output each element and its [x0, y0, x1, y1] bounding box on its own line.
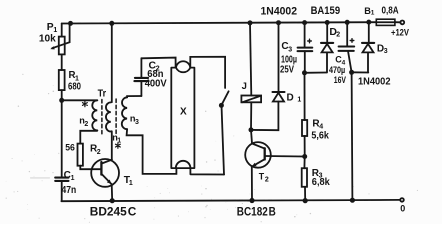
- svg-text:680: 680: [68, 82, 81, 93]
- label n1: [112, 132, 121, 144]
- label R3: [312, 168, 323, 180]
- svg-text:Tr: Tr: [98, 88, 107, 99]
- node C4 bottom rail: [350, 198, 355, 203]
- node top rail P1 wiper: [68, 21, 73, 26]
- node J/D1/T2: [249, 127, 254, 132]
- svg-text:2: 2: [265, 177, 269, 184]
- svg-text:1: 1: [129, 180, 133, 187]
- svg-text:3: 3: [384, 48, 388, 55]
- capacitor C3: [298, 23, 313, 73]
- svg-text:4: 4: [319, 124, 323, 131]
- resistor R3: [302, 168, 307, 187]
- svg-text:1N4002: 1N4002: [261, 5, 298, 17]
- svg-text:0,8A: 0,8A: [382, 6, 400, 17]
- svg-text:2: 2: [97, 149, 101, 156]
- node top rail C4: [345, 20, 350, 25]
- wire C3 node to R4: [304, 73, 306, 120]
- svg-text:47n: 47n: [62, 185, 77, 196]
- svg-text:2: 2: [336, 32, 340, 39]
- svg-text:1: 1: [297, 97, 301, 104]
- transistor T2: [245, 130, 271, 201]
- label D1: [287, 93, 302, 104]
- wire to n2: [62, 99, 98, 101]
- svg-text:25V: 25V: [280, 64, 294, 75]
- diode D1: [251, 23, 285, 131]
- wire T2 base: [265, 155, 305, 158]
- wire n3 bottom to tube: [127, 129, 224, 174]
- label n3: [130, 113, 139, 126]
- wire C2 top to tube: [141, 58, 175, 68]
- resistor R2: [78, 144, 83, 166]
- diode D3: [362, 22, 374, 72]
- scan artifact faint line: [31, 177, 50, 179]
- svg-text:16V: 16V: [334, 75, 347, 86]
- svg-text:56: 56: [65, 142, 75, 152]
- node top rail D1: [276, 20, 281, 25]
- label D3: [377, 43, 388, 55]
- node top rail C3: [302, 20, 307, 25]
- label D2: [329, 26, 340, 38]
- label n2: [79, 116, 88, 129]
- svg-text:3: 3: [288, 46, 292, 53]
- capacitor C1: [55, 178, 68, 181]
- svg-text:6,8k: 6,8k: [312, 177, 330, 188]
- wire base node to R3: [303, 157, 305, 169]
- label R2: [90, 144, 101, 156]
- polarity mark n1: [116, 143, 121, 148]
- node top rail J: [248, 20, 253, 25]
- label T1: [124, 175, 133, 187]
- terminal +12V: [400, 21, 404, 25]
- node top rail D2: [325, 20, 330, 25]
- node top rail D3: [366, 20, 371, 25]
- switch S: [219, 91, 229, 174]
- resistor R1: [59, 70, 65, 90]
- polarity mark n2: [83, 101, 88, 106]
- wire left chain vertical: [61, 24, 63, 202]
- label R4: [312, 119, 323, 131]
- svg-text:0: 0: [400, 204, 405, 214]
- node T2 emitter bottom: [249, 198, 254, 203]
- transformer winding n1: [106, 102, 111, 131]
- wire n2 bottom to R2: [80, 130, 97, 143]
- label T2: [259, 171, 269, 183]
- label C3: [281, 41, 292, 53]
- label P1: [47, 22, 58, 34]
- svg-text:1: 1: [371, 9, 375, 16]
- label C2: [149, 59, 160, 72]
- svg-text:2: 2: [84, 121, 88, 128]
- svg-text:1: 1: [71, 175, 75, 182]
- potentiometer P1: [50, 23, 69, 54]
- svg-text:400V: 400V: [145, 77, 167, 89]
- node junction R1/n2: [59, 98, 64, 103]
- capacitor C2: [134, 58, 148, 96]
- node R3 bottom rail: [303, 198, 308, 203]
- node R4/R3/base: [302, 154, 307, 159]
- node C4/D3: [349, 70, 354, 75]
- svg-text:470µ: 470µ: [329, 65, 345, 75]
- wire C4 node to D3: [352, 71, 369, 73]
- svg-text:BC182 B: BC182 B: [237, 206, 276, 218]
- transformer winding n3: [122, 97, 127, 129]
- label B1: [364, 6, 375, 16]
- label R1: [69, 70, 80, 82]
- capacitor C4: [339, 22, 355, 72]
- node top rail n1: [109, 21, 114, 26]
- svg-text:1N4002: 1N4002: [358, 76, 391, 88]
- scan speckle noise: [6, 74, 418, 223]
- svg-text:T: T: [259, 171, 265, 181]
- svg-text:+12V: +12V: [391, 27, 410, 38]
- wire R4 to base node: [304, 136, 306, 157]
- transistor T1: [91, 159, 119, 187]
- transformer Tr winding n2: [92, 100, 97, 130]
- wire T1 emitter to bottom rail: [111, 184, 114, 201]
- resistor R4: [302, 120, 307, 136]
- label C1: [64, 170, 75, 182]
- wire tube top right to switch: [190, 57, 225, 88]
- wire n3 top to C2: [127, 96, 141, 97]
- svg-text:3: 3: [135, 119, 139, 126]
- svg-text:X: X: [180, 107, 187, 118]
- wire C3 node to D2: [305, 72, 327, 74]
- wire R3 to bottom rail: [304, 187, 306, 201]
- wire collector line / n1 feed: [111, 23, 113, 159]
- relay coil J: [241, 23, 261, 130]
- fuse B1: [376, 19, 395, 25]
- wire R2 to T1 base: [80, 166, 101, 170]
- label C4: [335, 54, 345, 66]
- svg-text:J: J: [242, 81, 247, 92]
- svg-text:BA159: BA159: [311, 5, 341, 17]
- node C3/D2: [302, 70, 307, 75]
- fluorescent tube X: [171, 61, 194, 168]
- svg-text:5,6k: 5,6k: [311, 131, 329, 142]
- svg-text:10k: 10k: [39, 34, 56, 45]
- node T1 emitter bottom: [110, 198, 115, 203]
- wire top rail: [62, 22, 401, 23]
- diode D2: [321, 23, 333, 73]
- terminal 0: [400, 198, 404, 202]
- svg-text:BD245 C: BD245 C: [90, 207, 137, 219]
- svg-text:D: D: [287, 93, 294, 104]
- wire bottom rail: [61, 200, 400, 201]
- wire C4 node to bottom rail: [351, 72, 354, 200]
- transformer core dashed lines: [102, 99, 116, 134]
